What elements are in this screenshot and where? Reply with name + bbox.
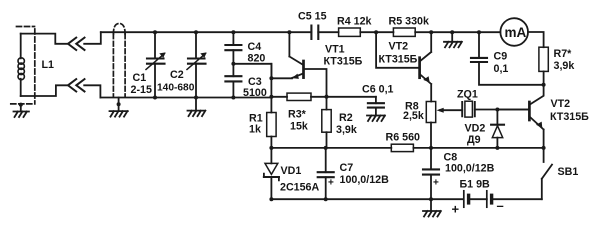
ground (under C8) — [423, 199, 441, 216]
node dot — [325, 95, 329, 99]
node dot — [231, 96, 235, 100]
node dot — [495, 108, 499, 112]
ground (cable screen) — [110, 98, 128, 117]
diode VD2 (points up) — [491, 110, 504, 148]
resistor R1 — [267, 113, 276, 137]
node dot — [495, 146, 499, 150]
node dot — [194, 30, 198, 34]
node dot — [374, 30, 378, 34]
node dot — [429, 197, 433, 201]
svg-text:2-15: 2-15 — [131, 84, 152, 96]
capacitor C2 (variable) — [187, 32, 207, 97]
transistor VT1 (faces left) — [271, 32, 326, 95]
wire top cable — [21, 32, 101, 44]
svg-text:+: + — [452, 201, 460, 216]
svg-text:R5 330k: R5 330k — [389, 16, 429, 28]
node dot — [269, 197, 273, 201]
svg-text:140-680: 140-680 — [157, 83, 195, 94]
node dot — [542, 83, 546, 87]
inductor L1 — [20, 34, 22, 96]
svg-text:R2: R2 — [339, 112, 353, 124]
node line (R3 row) — [270, 64, 272, 113]
svg-text:+: + — [328, 178, 334, 189]
node dot — [269, 146, 273, 150]
svg-text:C4: C4 — [248, 41, 262, 53]
svg-text:C2: C2 — [170, 69, 184, 81]
svg-text:0,1: 0,1 — [494, 63, 509, 75]
battery B1 — [464, 191, 492, 207]
node dot — [324, 146, 328, 150]
zener VD1 — [264, 148, 279, 199]
svg-text:100,0/12В: 100,0/12В — [340, 174, 390, 186]
svg-text:2,5k: 2,5k — [403, 110, 424, 122]
capacitor C1 (variable) — [146, 32, 166, 97]
node dot — [287, 30, 291, 34]
svg-text:КТ315Б: КТ315Б — [324, 56, 363, 68]
switch SB1 — [542, 148, 552, 199]
antenna screen box (dashed) around L1 — [11, 27, 35, 104]
wire — [360, 31, 393, 33]
svg-text:15k: 15k — [290, 121, 308, 133]
svg-text:VD1: VD1 — [281, 165, 302, 177]
svg-text:Б1 9В: Б1 9В — [460, 179, 491, 191]
resistor R4 — [339, 28, 361, 36]
svg-text:SB1: SB1 — [558, 166, 579, 178]
negative supply rail — [271, 147, 543, 149]
capacitor C7 (electrolytic) — [318, 148, 334, 199]
node dot — [542, 146, 546, 150]
connector chevrons bottom — [68, 79, 85, 91]
wire — [415, 31, 500, 33]
node dot — [429, 146, 433, 150]
milliammeter PA — [500, 18, 543, 47]
resistor R7* — [539, 47, 548, 71]
cable screen (dashed) — [113, 24, 125, 98]
node dot — [269, 95, 273, 99]
ground (antenna screen) — [14, 103, 29, 117]
svg-text:2C156A: 2C156A — [280, 182, 319, 194]
svg-text:3,9k: 3,9k — [336, 124, 357, 136]
R8 wiper arrow — [440, 109, 462, 111]
capacitor C8 (electrolytic) — [423, 148, 439, 199]
svg-text:100,0/12В: 100,0/12В — [445, 163, 495, 175]
capacitor C4 — [225, 32, 241, 76]
ground (on meter rail) — [444, 32, 462, 47]
resistor R3* — [287, 93, 311, 100]
connector chevrons top — [68, 38, 85, 50]
svg-text:VT1: VT1 — [325, 44, 345, 56]
wire bottom cable — [21, 85, 101, 97]
capacitor C5 (series) — [311, 26, 338, 39]
node dot — [194, 96, 198, 100]
svg-text:R4 12k: R4 12k — [337, 16, 372, 28]
wire: top rail — [101, 31, 312, 33]
svg-text:R7*: R7* — [554, 48, 573, 60]
svg-text:L1: L1 — [42, 59, 55, 71]
svg-text:1k: 1k — [249, 124, 261, 136]
transistor VT2 (right) — [497, 85, 543, 148]
svg-text:VT2: VT2 — [389, 41, 409, 53]
svg-text:C1: C1 — [133, 72, 147, 84]
wire: C4/C3 tap to emitter line — [233, 64, 271, 79]
node dot — [477, 30, 481, 34]
svg-text:ZQ1: ZQ1 — [457, 89, 478, 101]
svg-text:C7: C7 — [340, 162, 354, 174]
capacitor C3 — [225, 76, 241, 97]
svg-text:+: + — [433, 178, 439, 189]
svg-text:Д9: Д9 — [467, 134, 481, 146]
transistor VT2 (middle) — [376, 32, 431, 101]
node dot — [269, 76, 273, 80]
svg-text:C5 15: C5 15 — [298, 11, 327, 23]
crystal ZQ1 — [462, 101, 529, 117]
node dot — [324, 197, 328, 201]
node dot — [429, 30, 433, 34]
ground (tank circuit, under C2) — [188, 98, 206, 117]
svg-text:R3*: R3* — [288, 109, 307, 121]
potentiometer R8 — [426, 102, 435, 123]
svg-text:3,9k: 3,9k — [554, 60, 575, 72]
capacitor C6 to ground — [367, 97, 385, 121]
wire: bottom rail (input) — [100, 97, 271, 99]
resistor R6 — [391, 144, 413, 151]
svg-text:820: 820 — [248, 53, 266, 65]
resistor R5 — [393, 28, 415, 36]
svg-text:C9: C9 — [494, 51, 508, 63]
svg-text:КТ315Б: КТ315Б — [550, 111, 589, 123]
node dot — [231, 30, 235, 34]
node dot — [231, 62, 235, 66]
ground rail (bottom) — [271, 198, 463, 200]
capacitor C9 — [471, 32, 544, 85]
svg-text:VT2: VT2 — [551, 98, 571, 110]
svg-text:КТ315Б: КТ315Б — [379, 54, 418, 66]
node dot — [450, 30, 454, 34]
svg-text:R6 560: R6 560 — [386, 132, 421, 144]
node dot — [153, 96, 157, 100]
node dot — [153, 30, 157, 34]
svg-text:–: – — [497, 198, 504, 213]
svg-text:5100: 5100 — [243, 87, 267, 99]
svg-text:VD2: VD2 — [465, 123, 486, 135]
resistor R2 — [326, 95, 328, 110]
svg-text:mA: mA — [505, 25, 527, 40]
svg-text:C6 0,1: C6 0,1 — [362, 84, 394, 96]
